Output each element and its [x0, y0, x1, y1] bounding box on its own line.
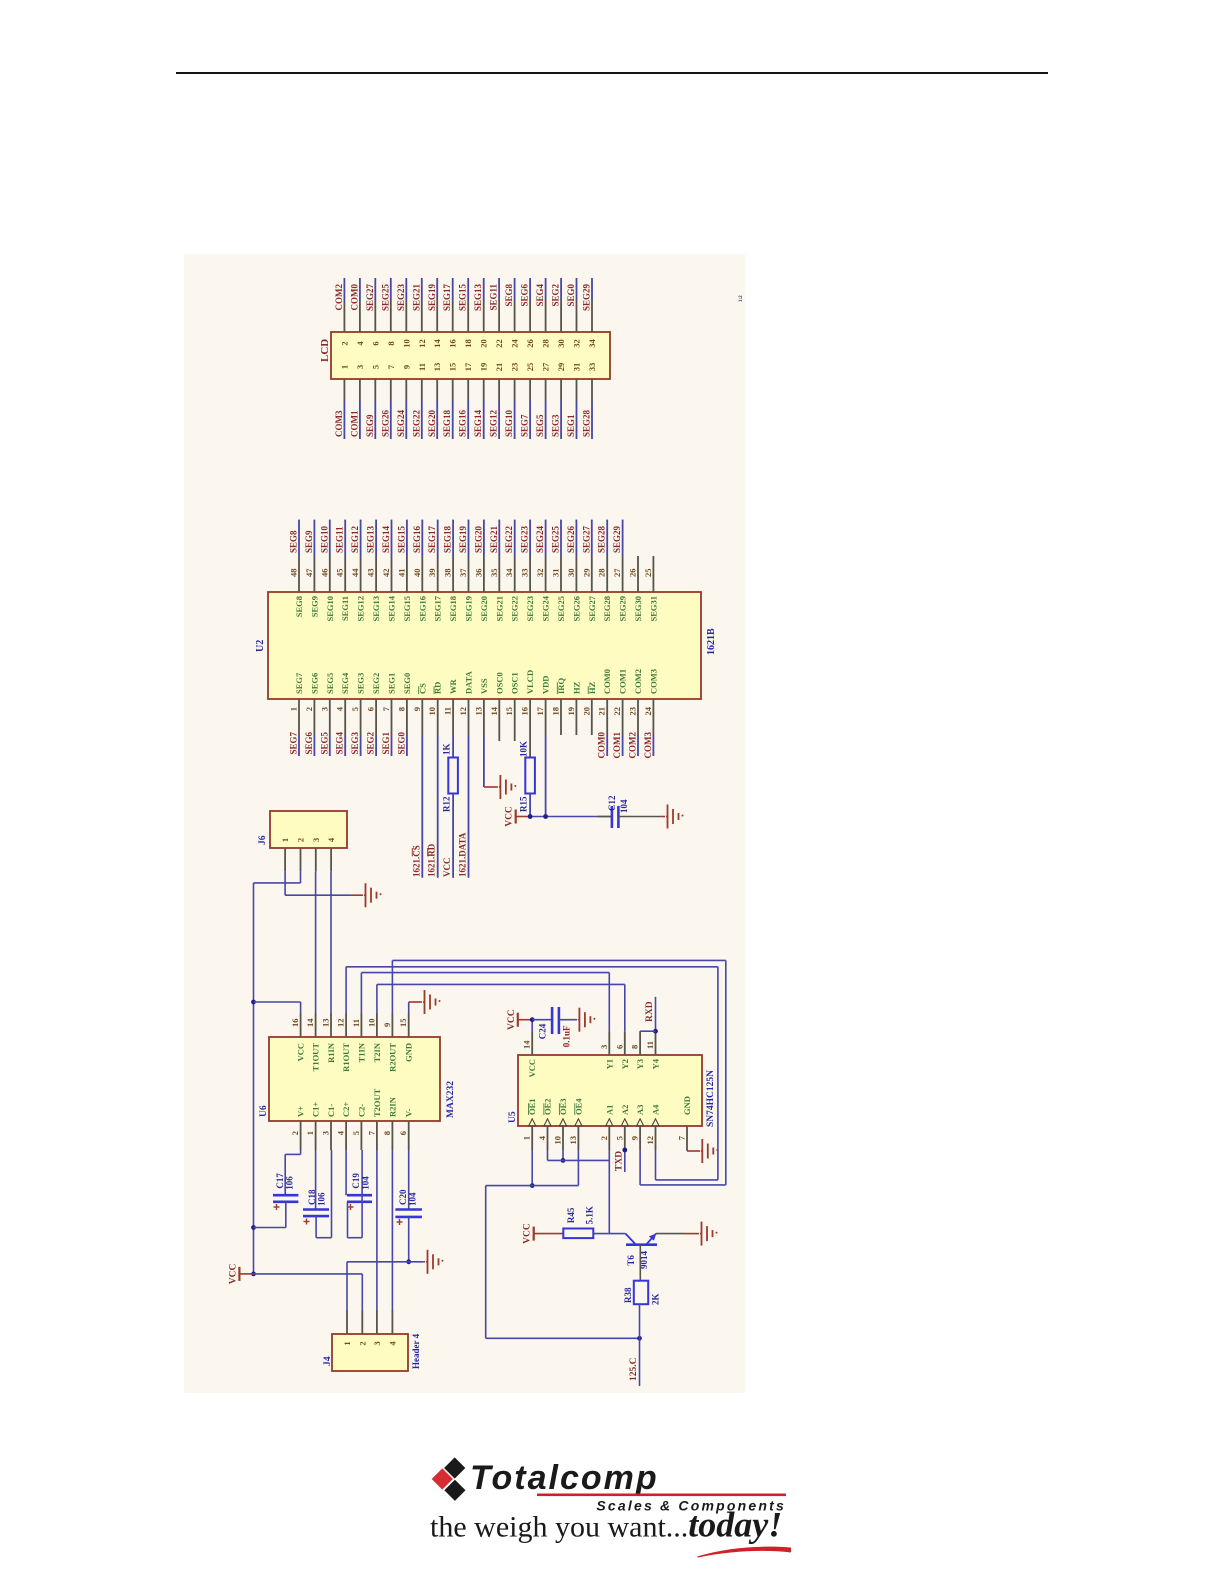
- svg-text:SEG18: SEG18: [442, 409, 452, 437]
- svg-text:Y1: Y1: [604, 1059, 614, 1069]
- svg-text:15: 15: [448, 363, 458, 372]
- svg-text:SEG13: SEG13: [366, 525, 376, 553]
- svg-text:SEG16: SEG16: [412, 525, 422, 553]
- svg-text:2: 2: [357, 1341, 367, 1345]
- svg-text:SEG9: SEG9: [304, 530, 314, 553]
- svg-text:SEG11: SEG11: [335, 526, 345, 553]
- svg-text:R45: R45: [566, 1207, 576, 1223]
- svg-text:21: 21: [494, 363, 504, 372]
- svg-text:the weigh you want...today!: the weigh you want...today!: [430, 1505, 782, 1545]
- svg-text:C2+: C2+: [341, 1102, 351, 1117]
- svg-text:GND: GND: [682, 1096, 692, 1115]
- svg-text:3: 3: [311, 838, 321, 842]
- svg-text:29: 29: [556, 363, 566, 372]
- svg-text:3: 3: [319, 707, 329, 711]
- svg-text:A3: A3: [635, 1105, 645, 1115]
- svg-text:VCC: VCC: [228, 1263, 238, 1284]
- svg-text:SEG5: SEG5: [319, 732, 329, 755]
- svg-text:25: 25: [643, 569, 653, 578]
- svg-text:2: 2: [296, 838, 306, 842]
- svg-text:48: 48: [289, 569, 299, 578]
- svg-text:SEG15: SEG15: [458, 284, 468, 312]
- svg-text:1: 1: [342, 1341, 352, 1345]
- svg-text:C24: C24: [538, 1023, 548, 1039]
- svg-text:SEG31: SEG31: [648, 596, 658, 622]
- svg-text:V+: V+: [296, 1106, 306, 1117]
- svg-text:SEG30: SEG30: [633, 596, 643, 622]
- svg-text:SEG29: SEG29: [582, 284, 592, 312]
- svg-text:A2: A2: [620, 1105, 630, 1115]
- svg-text:32: 32: [535, 569, 545, 578]
- svg-text:SEG5: SEG5: [325, 673, 335, 694]
- svg-text:SEG3: SEG3: [356, 673, 366, 694]
- svg-text:20: 20: [581, 707, 591, 716]
- svg-text:27: 27: [612, 568, 622, 577]
- svg-text:1: 1: [305, 1131, 315, 1135]
- svg-text:14: 14: [489, 706, 499, 715]
- svg-text:SEG26: SEG26: [571, 596, 581, 622]
- svg-text:SEG8: SEG8: [504, 284, 514, 307]
- svg-text:18: 18: [463, 339, 473, 348]
- svg-text:GND: GND: [404, 1043, 414, 1062]
- svg-text:LCD: LCD: [319, 339, 331, 362]
- svg-text:SEG23: SEG23: [525, 596, 535, 622]
- svg-text:35: 35: [489, 569, 499, 578]
- svg-text:J6: J6: [258, 835, 268, 845]
- svg-text:SEG24: SEG24: [535, 525, 545, 553]
- svg-text:13: 13: [473, 707, 483, 716]
- svg-text:19: 19: [566, 707, 576, 716]
- svg-text:SEG17: SEG17: [427, 525, 437, 553]
- svg-text:SEG15: SEG15: [402, 596, 412, 622]
- svg-text:Y4: Y4: [651, 1058, 661, 1069]
- svg-text:6: 6: [614, 1045, 624, 1049]
- svg-text:SEG29: SEG29: [618, 596, 628, 622]
- svg-text:SEG22: SEG22: [411, 409, 421, 437]
- svg-text:SEG13: SEG13: [473, 284, 483, 312]
- svg-text:33: 33: [587, 363, 597, 372]
- svg-text:0.1uF: 0.1uF: [562, 1025, 572, 1047]
- svg-text:SEG0: SEG0: [396, 732, 406, 755]
- svg-text:17: 17: [463, 362, 473, 371]
- svg-text:28: 28: [597, 569, 607, 578]
- svg-text:41: 41: [396, 569, 406, 578]
- svg-text:42: 42: [381, 569, 391, 578]
- svg-text:VCC: VCC: [507, 1009, 517, 1030]
- svg-text:SEG6: SEG6: [520, 284, 530, 307]
- svg-text:SEG4: SEG4: [340, 672, 350, 694]
- svg-text:15: 15: [504, 707, 514, 716]
- svg-text:104: 104: [408, 1192, 418, 1206]
- svg-text:SEG21: SEG21: [494, 596, 504, 622]
- svg-text:SEG16: SEG16: [458, 409, 468, 437]
- svg-text:VCC: VCC: [527, 1059, 537, 1077]
- svg-text:3: 3: [321, 1131, 331, 1135]
- svg-text:SEG23: SEG23: [396, 284, 406, 312]
- svg-text:43: 43: [366, 569, 376, 578]
- svg-text:COM3: COM3: [648, 669, 658, 694]
- svg-text:COM2: COM2: [633, 669, 643, 694]
- svg-text:23: 23: [628, 707, 638, 716]
- svg-text:22: 22: [494, 339, 504, 348]
- svg-text:COM0: COM0: [602, 669, 612, 694]
- svg-text:SEG11: SEG11: [489, 284, 499, 311]
- svg-text:SEG17: SEG17: [442, 284, 452, 312]
- svg-text:SEG17: SEG17: [433, 595, 443, 621]
- svg-text:SEG12: SEG12: [356, 596, 366, 622]
- svg-text:SEG19: SEG19: [427, 284, 437, 312]
- svg-text:106: 106: [285, 1176, 295, 1190]
- svg-text:SEG25: SEG25: [556, 596, 566, 622]
- svg-text:MAX232: MAX232: [446, 1081, 456, 1118]
- svg-text:SEG1: SEG1: [381, 732, 391, 755]
- svg-text:5.1K: 5.1K: [585, 1206, 595, 1224]
- svg-text:SEG6: SEG6: [304, 732, 314, 755]
- svg-text:T2IN: T2IN: [372, 1042, 382, 1062]
- svg-text:C1+: C1+: [311, 1102, 321, 1117]
- svg-text:14: 14: [305, 1018, 315, 1027]
- svg-text:C18: C18: [307, 1189, 317, 1205]
- svg-text:19: 19: [479, 363, 489, 372]
- svg-text:11: 11: [645, 1041, 655, 1049]
- svg-text:SEG28: SEG28: [602, 596, 612, 622]
- svg-text:SEG0: SEG0: [566, 284, 576, 307]
- svg-text:SEG18: SEG18: [448, 596, 458, 622]
- svg-text:125.C: 125.C: [629, 1357, 639, 1381]
- svg-text:SEG25: SEG25: [551, 525, 561, 553]
- svg-text:T1IN: T1IN: [356, 1042, 366, 1062]
- svg-text:Totalcomp: Totalcomp: [470, 1459, 659, 1497]
- svg-text:2: 2: [290, 1131, 300, 1135]
- svg-text:SEG28: SEG28: [582, 409, 592, 437]
- svg-text:12: 12: [417, 339, 427, 348]
- svg-text:SEG6: SEG6: [309, 673, 319, 694]
- svg-text:37: 37: [458, 568, 468, 577]
- svg-text:SEG0: SEG0: [402, 673, 412, 694]
- svg-text:SEG10: SEG10: [325, 596, 335, 622]
- svg-text:SEG5: SEG5: [535, 414, 545, 437]
- svg-text:45: 45: [335, 569, 345, 578]
- svg-text:SEG8: SEG8: [294, 596, 304, 617]
- svg-text:5: 5: [351, 1131, 361, 1135]
- svg-text:28: 28: [541, 339, 551, 348]
- svg-text:13: 13: [432, 363, 442, 372]
- svg-text:30: 30: [566, 569, 576, 578]
- svg-text:8: 8: [382, 1131, 392, 1135]
- svg-text:1621.RD: 1621.RD: [427, 843, 437, 877]
- svg-text:10: 10: [427, 707, 437, 716]
- svg-text:SEG29: SEG29: [612, 525, 622, 553]
- svg-text:SEG4: SEG4: [535, 284, 545, 307]
- svg-text:1621B: 1621B: [706, 628, 717, 655]
- svg-text:8: 8: [396, 707, 406, 711]
- svg-text:SEG12: SEG12: [489, 409, 499, 437]
- svg-text:SEG14: SEG14: [387, 595, 397, 621]
- svg-text:5: 5: [614, 1136, 624, 1140]
- svg-text:2K: 2K: [651, 1293, 661, 1305]
- svg-text:18: 18: [551, 707, 561, 716]
- svg-text:SEG21: SEG21: [489, 525, 499, 553]
- svg-text:SEG3: SEG3: [350, 732, 360, 755]
- svg-text:SEG19: SEG19: [458, 525, 468, 553]
- svg-text:9: 9: [412, 707, 422, 711]
- svg-text:TXD: TXD: [615, 1151, 625, 1171]
- svg-text:SEG20: SEG20: [427, 409, 437, 437]
- svg-text:26: 26: [525, 339, 535, 348]
- svg-text:SEG8: SEG8: [289, 530, 299, 553]
- svg-text:29: 29: [581, 569, 591, 578]
- svg-text:2: 2: [599, 1136, 609, 1140]
- svg-text:10K: 10K: [519, 741, 529, 757]
- svg-text:14: 14: [432, 339, 442, 348]
- svg-text:SEG20: SEG20: [479, 596, 489, 622]
- svg-text:26: 26: [628, 569, 638, 578]
- svg-text:14: 14: [522, 1040, 532, 1049]
- svg-text:SEG7: SEG7: [520, 414, 530, 437]
- svg-text:R2OUT: R2OUT: [387, 1043, 397, 1072]
- svg-text:16: 16: [520, 707, 530, 716]
- svg-text:9: 9: [630, 1136, 640, 1140]
- svg-text:SEG24: SEG24: [396, 409, 406, 437]
- svg-text:VCC: VCC: [523, 1223, 533, 1244]
- svg-text:VLCD: VLCD: [525, 670, 535, 694]
- svg-text:C1-: C1-: [326, 1104, 336, 1117]
- svg-text:30: 30: [556, 339, 566, 348]
- svg-text:R1OUT: R1OUT: [341, 1043, 351, 1072]
- svg-text:C2-: C2-: [356, 1104, 366, 1117]
- svg-text:OSC0: OSC0: [494, 672, 504, 694]
- svg-text:16: 16: [290, 1019, 300, 1028]
- svg-text:SEG19: SEG19: [464, 596, 474, 622]
- svg-text:1K: 1K: [442, 743, 452, 755]
- svg-text:6: 6: [398, 1131, 408, 1135]
- svg-text:Y3: Y3: [635, 1059, 645, 1069]
- svg-text:11: 11: [443, 707, 453, 715]
- svg-text:34: 34: [504, 568, 514, 577]
- svg-text:COM1: COM1: [612, 732, 622, 759]
- svg-text:SEG7: SEG7: [294, 672, 304, 694]
- svg-text:SEG2: SEG2: [371, 673, 381, 694]
- svg-text:40: 40: [412, 569, 422, 578]
- svg-text:25: 25: [525, 363, 535, 372]
- svg-text:6: 6: [366, 707, 376, 711]
- svg-text:33: 33: [520, 569, 530, 578]
- svg-text:3: 3: [372, 1341, 382, 1345]
- svg-text:SEG7: SEG7: [289, 732, 299, 755]
- svg-text:C17: C17: [275, 1173, 285, 1189]
- svg-text:U5: U5: [508, 1111, 518, 1123]
- svg-text:SEG2: SEG2: [366, 732, 376, 755]
- svg-text:VCC: VCC: [505, 806, 515, 827]
- svg-text:24: 24: [510, 339, 520, 348]
- svg-text:17: 17: [535, 706, 545, 715]
- svg-text:HZ: HZ: [571, 681, 581, 694]
- svg-text:1621.CS: 1621.CS: [411, 845, 421, 877]
- svg-text:T1OUT: T1OUT: [311, 1043, 321, 1072]
- svg-text:A1: A1: [604, 1105, 614, 1115]
- svg-text:VDD: VDD: [541, 676, 551, 694]
- svg-text:16: 16: [448, 339, 458, 348]
- svg-text:SEG26: SEG26: [380, 409, 390, 437]
- svg-text:SEG12: SEG12: [350, 525, 360, 553]
- svg-text:SEG27: SEG27: [581, 525, 591, 553]
- svg-text:46: 46: [319, 569, 329, 578]
- svg-text:SEG1: SEG1: [387, 673, 397, 694]
- svg-text:COM0: COM0: [349, 284, 359, 311]
- svg-text:C12: C12: [607, 795, 617, 811]
- svg-text:V-: V-: [404, 1108, 414, 1117]
- svg-text:R15: R15: [519, 796, 529, 812]
- svg-text:A4: A4: [651, 1104, 661, 1115]
- svg-text:C20: C20: [398, 1189, 408, 1205]
- svg-text:SEG21: SEG21: [411, 284, 421, 312]
- svg-text:SEG10: SEG10: [319, 525, 329, 553]
- svg-text:Y2: Y2: [620, 1059, 630, 1069]
- svg-text:12: 12: [458, 707, 468, 716]
- svg-text:9: 9: [401, 365, 411, 369]
- svg-text:OSC1: OSC1: [510, 672, 520, 694]
- svg-text:SN74HC125N: SN74HC125N: [706, 1070, 716, 1127]
- svg-text:1:2: 1:2: [739, 295, 744, 302]
- svg-text:J4: J4: [323, 1356, 333, 1366]
- svg-text:VCC: VCC: [296, 1043, 306, 1061]
- svg-text:SEG18: SEG18: [443, 525, 453, 553]
- svg-text:SEG26: SEG26: [566, 525, 576, 553]
- svg-text:SEG25: SEG25: [380, 284, 390, 312]
- svg-text:U6: U6: [259, 1105, 269, 1117]
- svg-text:12: 12: [336, 1019, 346, 1028]
- svg-text:106: 106: [317, 1192, 327, 1206]
- svg-text:COM0: COM0: [597, 732, 607, 759]
- svg-text:3: 3: [599, 1045, 609, 1049]
- svg-text:31: 31: [551, 569, 561, 578]
- svg-text:DATA: DATA: [464, 670, 474, 694]
- svg-text:1621.DATA: 1621.DATA: [458, 832, 468, 877]
- svg-text:36: 36: [473, 569, 483, 578]
- svg-text:COM3: COM3: [334, 410, 344, 437]
- svg-text:R1IN: R1IN: [326, 1042, 336, 1063]
- svg-text:SEG16: SEG16: [417, 596, 427, 622]
- svg-text:SEG9: SEG9: [365, 414, 375, 437]
- svg-text:COM3: COM3: [643, 732, 653, 759]
- svg-text:VCC: VCC: [442, 858, 452, 878]
- svg-text:RXD: RXD: [645, 1001, 655, 1022]
- svg-text:SEG14: SEG14: [473, 409, 483, 437]
- svg-text:SEG1: SEG1: [566, 414, 576, 437]
- svg-text:5: 5: [350, 707, 360, 711]
- svg-text:SEG13: SEG13: [371, 596, 381, 622]
- svg-text:SEG2: SEG2: [551, 284, 561, 307]
- svg-text:1: 1: [522, 1136, 532, 1140]
- svg-text:104: 104: [619, 799, 629, 813]
- svg-text:21: 21: [597, 707, 607, 716]
- svg-text:10: 10: [366, 1019, 376, 1028]
- svg-text:47: 47: [304, 568, 314, 577]
- svg-text:15: 15: [398, 1019, 408, 1028]
- svg-text:10: 10: [553, 1136, 563, 1145]
- svg-text:R38: R38: [623, 1287, 633, 1303]
- svg-text:SEG9: SEG9: [309, 596, 319, 617]
- svg-text:T2OUT: T2OUT: [372, 1088, 382, 1117]
- svg-text:31: 31: [572, 363, 582, 372]
- svg-text:12: 12: [645, 1136, 655, 1145]
- svg-text:WR: WR: [448, 679, 458, 695]
- svg-text:SEG15: SEG15: [396, 525, 406, 553]
- svg-text:1: 1: [339, 365, 349, 369]
- svg-text:10: 10: [401, 339, 411, 348]
- svg-text:24: 24: [643, 706, 653, 715]
- svg-text:COM2: COM2: [628, 732, 638, 759]
- svg-text:23: 23: [510, 363, 520, 372]
- svg-text:VSS: VSS: [479, 678, 489, 694]
- svg-text:SEG20: SEG20: [473, 525, 483, 553]
- svg-text:COM1: COM1: [618, 669, 628, 694]
- svg-text:11: 11: [351, 1019, 361, 1027]
- svg-text:27: 27: [541, 362, 551, 371]
- svg-text:8: 8: [630, 1045, 640, 1049]
- svg-text:SEG4: SEG4: [335, 732, 345, 755]
- svg-text:Header 4: Header 4: [411, 1333, 421, 1369]
- svg-text:T6: T6: [626, 1255, 636, 1266]
- svg-text:44: 44: [350, 568, 360, 577]
- svg-text:6: 6: [370, 341, 380, 345]
- svg-text:8: 8: [386, 341, 396, 345]
- svg-text:2: 2: [304, 707, 314, 711]
- svg-text:5: 5: [370, 365, 380, 369]
- svg-text:22: 22: [612, 707, 622, 716]
- svg-text:SEG14: SEG14: [381, 525, 391, 553]
- svg-text:20: 20: [479, 339, 489, 348]
- svg-text:SEG22: SEG22: [504, 525, 514, 553]
- svg-text:39: 39: [427, 569, 437, 578]
- svg-text:SEG23: SEG23: [520, 525, 530, 553]
- svg-text:SEG24: SEG24: [541, 595, 551, 621]
- svg-text:11: 11: [417, 363, 427, 371]
- svg-text:SEG27: SEG27: [365, 284, 375, 312]
- svg-text:38: 38: [443, 569, 453, 578]
- svg-text:COM2: COM2: [334, 284, 344, 311]
- svg-text:SEG22: SEG22: [510, 596, 520, 622]
- svg-text:SEG3: SEG3: [551, 414, 561, 437]
- svg-text:COM1: COM1: [349, 410, 359, 437]
- svg-text:1: 1: [280, 838, 290, 842]
- svg-text:R12: R12: [442, 796, 452, 812]
- svg-text:SEG27: SEG27: [587, 595, 597, 621]
- svg-text:U2: U2: [255, 640, 266, 652]
- svg-text:13: 13: [321, 1019, 331, 1028]
- svg-text:2: 2: [339, 341, 349, 345]
- svg-text:34: 34: [587, 339, 597, 348]
- svg-text:SEG28: SEG28: [597, 525, 607, 553]
- svg-text:R2IN: R2IN: [387, 1096, 397, 1117]
- svg-text:3: 3: [355, 365, 365, 369]
- svg-text:SEG11: SEG11: [340, 596, 350, 621]
- svg-text:1: 1: [289, 707, 299, 711]
- svg-text:13: 13: [568, 1136, 578, 1145]
- svg-text:104: 104: [361, 1176, 371, 1190]
- svg-text:9: 9: [382, 1023, 392, 1027]
- svg-text:32: 32: [572, 339, 582, 348]
- svg-text:SEG10: SEG10: [504, 409, 514, 437]
- svg-text:C19: C19: [351, 1173, 361, 1189]
